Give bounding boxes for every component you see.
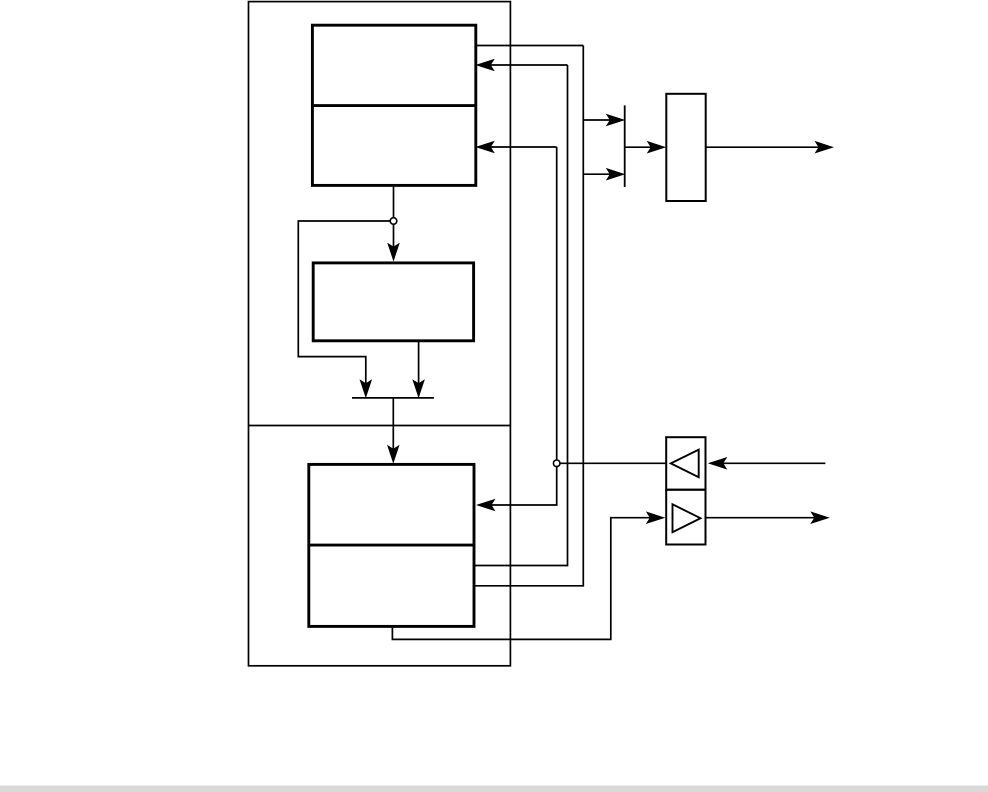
buffer cell: upper xyxy=(666,437,705,490)
wire: top register bottom output down to node xyxy=(393,186,395,218)
block: bottom register (two halves) xyxy=(309,464,474,626)
block: right tall unit xyxy=(666,94,705,201)
wire: node down into middle unit (arrow down) xyxy=(387,224,400,262)
junction bar (vertical) xyxy=(624,105,626,187)
wire: input into top register upper half (arrow left) xyxy=(475,59,567,72)
wire: top register upper output to vertical bus xyxy=(476,45,583,47)
block: middle unit xyxy=(313,263,473,341)
wire: node left loop down to bar (arrow down) xyxy=(298,221,390,398)
outer enclosure (upper+lower sections) xyxy=(249,2,511,666)
bottom gray rule xyxy=(0,786,988,792)
junction bar (horizontal) xyxy=(352,397,434,399)
top register divider xyxy=(312,104,475,107)
node: junction circle below top register xyxy=(390,218,397,225)
buffer triangle: output (points right) xyxy=(673,504,701,532)
wire: vertical bus x=567.5 down to bottom register upper port xyxy=(474,65,568,566)
wire: node to upper buffer cell xyxy=(560,462,666,464)
buffer cell: lower xyxy=(666,490,705,545)
node: junction circle on rx line xyxy=(553,460,560,467)
wire: vertical bus x=583 down to bottom register lower port xyxy=(474,46,583,586)
wire: branch to bar (lower) with arrow xyxy=(583,168,625,181)
bottom register divider xyxy=(309,544,474,547)
wire: vertical x=556.7 down to node xyxy=(556,147,558,460)
buffer triangle: input (points left) xyxy=(671,450,699,478)
wire: right tall unit output with arrow xyxy=(706,141,834,154)
block: top register (two halves) xyxy=(312,25,475,185)
wire: branch to bar (upper) with arrow xyxy=(583,114,625,127)
wire: input into top register lower half (arrow left) xyxy=(475,141,556,154)
wire: bottom register bottom output to lower buffer (arrow right) xyxy=(392,511,665,639)
wire: lower buffer output with arrow xyxy=(706,511,830,524)
wire: external input into upper buffer (arrow left at buffer) xyxy=(708,457,826,470)
wire: bar down into bottom register (arrow down) xyxy=(387,398,400,464)
wire: node down then left into bottom register upper half (arrow left) xyxy=(476,467,557,512)
wire: middle unit output down to bar (arrow down) xyxy=(412,341,425,398)
wire: bar to right tall unit with arrow xyxy=(625,141,667,154)
outer enclosure section divider xyxy=(249,425,511,427)
